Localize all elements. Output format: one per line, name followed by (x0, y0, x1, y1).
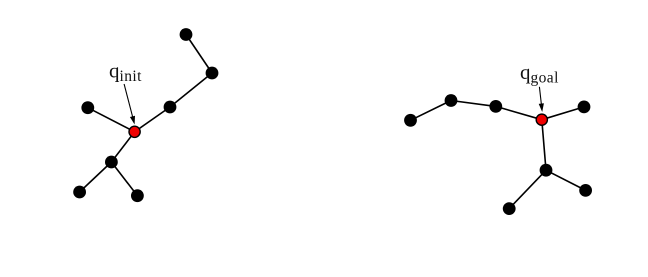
node M5 (540, 164, 553, 177)
wire right tree edge M2-M3 (451, 101, 496, 107)
wire left tree edge N4-R1 (88, 108, 135, 132)
node M4 (578, 101, 591, 114)
wire right tree edge R2-M5 (542, 120, 546, 171)
wire left tree edge N2-N3 (170, 73, 212, 107)
node N2 (206, 67, 219, 80)
node M7 (579, 184, 592, 197)
node N4 (81, 101, 94, 114)
node q_init (red) (129, 126, 140, 137)
wire right tree edge M5-M7 (546, 170, 586, 190)
node N3 (164, 101, 177, 114)
node M3 (489, 100, 502, 113)
node M1 (404, 114, 417, 127)
node M6 (503, 202, 516, 215)
wire left tree edge R1-N5 (111, 132, 134, 162)
node N1 (180, 28, 193, 41)
wire left tree edge N1-N2 (186, 35, 212, 74)
arrow to q_goal (539, 87, 544, 112)
wire left tree edge N5-N7 (111, 162, 137, 196)
wire left tree edge N5-N6 (80, 162, 112, 192)
node N7 (131, 189, 144, 202)
node N5 (105, 156, 118, 169)
node N6 (73, 186, 86, 199)
wire right tree edge M1-M2 (411, 101, 452, 121)
node q_goal (red) (536, 114, 547, 125)
wire right tree edge R2-M4 (542, 107, 584, 120)
wire right tree edge M3-R2 (496, 106, 542, 119)
wire left tree edge N3-R1 (135, 107, 170, 132)
node M2 (445, 94, 458, 107)
wire right tree edge M5-M6 (509, 170, 546, 208)
arrow to q_init (124, 84, 135, 125)
